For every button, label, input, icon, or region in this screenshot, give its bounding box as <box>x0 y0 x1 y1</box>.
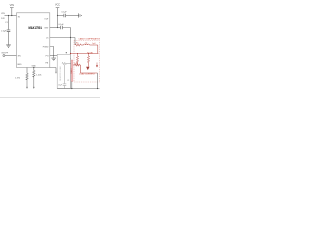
resistor R cable <box>75 44 81 46</box>
node junction VIN-C1 <box>8 15 9 16</box>
svg-text:C2: C2 <box>67 80 69 82</box>
wire VCC rail <box>58 15 64 17</box>
svg-text:0.1µF: 0.1µF <box>62 12 68 14</box>
wire EN <box>5 55 17 57</box>
wire red load bottom <box>73 64 98 73</box>
wire VIN input <box>5 15 17 17</box>
capacitor C4 internal <box>63 65 67 89</box>
node junction VCC rail <box>57 15 58 16</box>
capacitor C2 boot <box>59 24 71 38</box>
wire VCC to BST row <box>57 16 59 28</box>
svg-text:0.1µF: 0.1µF <box>59 24 65 26</box>
wire PG sense <box>50 55 57 57</box>
op-amp U1 regulator MAX17501 body <box>17 13 50 68</box>
power flag VIN <box>10 3 14 16</box>
svg-text:CABLE COMPENSATION: CABLE COMPENSATION <box>79 37 101 40</box>
wire red <box>81 44 84 46</box>
wire VOUT drop <box>70 38 72 89</box>
wire red VOUT rail <box>71 53 99 55</box>
svg-text:REMOTE LOAD: REMOTE LOAD <box>59 66 62 81</box>
node junction VIN flag <box>11 15 12 16</box>
wire red to edge <box>90 45 98 54</box>
svg-text:2.2µF: 2.2µF <box>1 30 7 32</box>
wire return rail <box>57 88 99 90</box>
svg-text:24V: 24V <box>1 18 5 20</box>
svg-text:RLOAD: RLOAD <box>87 51 94 54</box>
node red cable bundle box <box>71 60 73 82</box>
wire BST <box>50 27 60 29</box>
svg-text:PGND: PGND <box>43 46 49 48</box>
svg-text:VIN: VIN <box>10 3 14 7</box>
resistor R load1 <box>76 54 78 66</box>
svg-text:1.37k: 1.37k <box>15 77 21 79</box>
svg-text:1.00k: 1.00k <box>36 75 42 77</box>
power flag VCC <box>55 4 60 16</box>
svg-text:MAX17501: MAX17501 <box>29 26 43 30</box>
svg-text:RC: RC <box>76 43 79 45</box>
resistor R2 divider <box>15 67 42 87</box>
svg-text:VCC: VCC <box>55 4 60 7</box>
svg-text:GND: GND <box>17 64 22 66</box>
svg-text:LOAD CURRENT: LOAD CURRENT <box>79 72 96 75</box>
wire FB net <box>50 68 56 73</box>
svg-text:C1: C1 <box>5 22 9 24</box>
svg-text:ON/OFF: ON/OFF <box>1 53 9 55</box>
ground IC <box>51 58 56 60</box>
ground sideways <box>79 13 82 17</box>
wire sense stub arrow <box>26 87 28 89</box>
capacitor C3 bypass <box>62 12 79 18</box>
resistor R load2 <box>87 54 89 67</box>
wire GND pin <box>50 47 54 58</box>
svg-text:CABLE: CABLE <box>70 67 73 74</box>
wire red bar down <box>71 82 73 89</box>
svg-text:1µH: 1µH <box>92 43 96 45</box>
ground C1 <box>6 45 11 47</box>
resistor R1 divider <box>26 68 28 74</box>
svg-text:10µF: 10µF <box>58 84 62 86</box>
svg-text:PG: PG <box>46 55 49 57</box>
wire load return <box>97 73 99 89</box>
node junction remote box top <box>66 52 67 53</box>
wire current arrow <box>96 63 98 68</box>
wire page rule <box>0 97 101 99</box>
inductor L cable <box>84 44 90 45</box>
resistor R sense internal <box>62 62 71 64</box>
svg-text:VIN: VIN <box>1 13 5 15</box>
node remote box <box>57 54 70 88</box>
wire LX <box>50 37 75 39</box>
capacitor C1 <box>1 16 10 45</box>
node red compensation box <box>74 41 100 83</box>
wire LX into cable box <box>74 38 76 46</box>
